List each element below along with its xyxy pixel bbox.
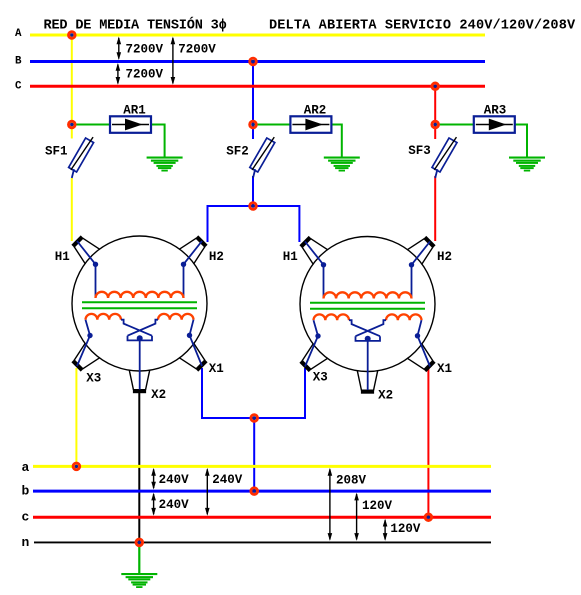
wire X3 lead of T2 [305, 320, 318, 366]
junction dot X3 lead T2 [315, 333, 320, 338]
secondary winding left of T1 [86, 314, 121, 320]
wire X3 lead of T1 [77, 320, 90, 366]
svg-text:b: b [22, 484, 30, 499]
bushing X2 of T2 [357, 370, 378, 391]
junction dot H1 lead T2 [321, 262, 326, 267]
wire phase C tap down to SF3 [434, 86, 436, 139]
fuse cutout SF1 [68, 134, 96, 173]
bushing X1 of T1 [179, 343, 209, 373]
primary winding of T2 [324, 292, 412, 298]
node H link junction [250, 203, 257, 210]
ground of AR1 [147, 157, 183, 172]
node c junction [425, 514, 432, 521]
junction dot H1 lead T1 [93, 262, 98, 267]
svg-text:7200V: 7200V [126, 43, 164, 57]
wire X1 lead of T1 [190, 320, 203, 366]
svg-text:H2: H2 [437, 250, 452, 264]
svg-text:7200V: 7200V [178, 43, 216, 57]
svg-text:X1: X1 [437, 362, 452, 376]
wire H2 of T1 to H1 of T2 link [208, 206, 300, 242]
svg-text:240V: 240V [212, 473, 243, 487]
svg-text:C: C [15, 81, 22, 93]
arrester AR3 wire to ground [515, 125, 527, 157]
node n junction [136, 539, 143, 546]
svg-text:208V: 208V [336, 474, 367, 488]
bushing H2 of T1 [179, 234, 209, 264]
bushing X2 of T1 [129, 370, 150, 391]
svg-text:SF3: SF3 [408, 144, 431, 158]
node b junction [251, 488, 258, 495]
arrester AR2 wire from tap [253, 124, 290, 126]
svg-text:n: n [22, 535, 30, 550]
junction dot H2 lead T2 [409, 262, 414, 267]
wire SF3 to H2 bushing of T2 [434, 176, 436, 241]
svg-text:SF1: SF1 [45, 145, 68, 159]
transformer T2 tank circle [300, 237, 435, 372]
bushing X1 of T2 [407, 344, 437, 374]
wire H1 lead of T1 [77, 241, 96, 298]
arrester AR1 body [110, 116, 151, 133]
wire SF1 to H1 bushing of T1 [71, 178, 73, 241]
bushing H1 of T2 [298, 235, 328, 265]
wire neutral to ground [138, 542, 140, 573]
dimension arrow A-B [117, 37, 122, 61]
svg-text:240V: 240V [159, 473, 190, 487]
dimension arrow a-n [328, 468, 333, 541]
ground of neutral [121, 573, 157, 588]
dimension arrow b-n [354, 493, 359, 541]
wire X1 of T1 to X3 of T2 link [202, 368, 305, 418]
wire phase A tap down to SF1 [71, 35, 73, 139]
bus neutral n [34, 541, 491, 543]
svg-text:AR2: AR2 [304, 104, 327, 118]
secondary winding right of T2 [386, 314, 421, 320]
svg-text:RED DE MEDIA TENSIÓN 3ϕ: RED DE MEDIA TENSIÓN 3ϕ [44, 18, 227, 34]
junction dot X1 lead T1 [187, 333, 192, 338]
wire H1 lead of T2 [305, 242, 324, 299]
ground of AR3 [509, 157, 545, 172]
center-tap crossover of T1 [121, 320, 158, 341]
transformer T1 tank circle [72, 236, 207, 371]
svg-text:X2: X2 [151, 388, 166, 402]
svg-text:7200V: 7200V [126, 67, 164, 81]
node C tap [432, 83, 439, 90]
node AR2 tap [250, 121, 257, 128]
svg-text:AR1: AR1 [123, 104, 146, 118]
svg-text:X2: X2 [378, 388, 393, 402]
arrester AR3 body [474, 116, 515, 133]
svg-text:B: B [15, 55, 22, 67]
wire H2 lead of T2 [412, 242, 431, 299]
node AR1 tap [69, 121, 76, 128]
svg-text:H1: H1 [55, 250, 70, 264]
arrester AR1 wire to ground [151, 125, 165, 157]
bushing X3 of T2 [298, 344, 328, 374]
svg-text:120V: 120V [362, 499, 393, 513]
arrester AR2 body [290, 116, 331, 133]
svg-text:H2: H2 [209, 250, 224, 264]
svg-text:c: c [22, 510, 30, 525]
arrester AR2 wire to ground [331, 125, 341, 157]
wire X1 lead of T2 [418, 320, 431, 366]
bushing H1 of T1 [70, 234, 100, 264]
secondary winding left of T2 [314, 314, 349, 320]
node B tap [250, 58, 257, 65]
fuse cutout SF2 [249, 134, 277, 173]
junction dot X1 lead T2 [415, 333, 420, 338]
node AR3 tap [432, 121, 439, 128]
ground of AR2 [324, 157, 360, 172]
bushing H2 of T2 [407, 235, 437, 265]
svg-text:A: A [15, 28, 22, 40]
dimension arrow c-n [383, 519, 388, 541]
bus phase A [30, 34, 485, 37]
svg-text:X3: X3 [86, 371, 101, 385]
wire X1 of T2 down to bus c [427, 368, 429, 517]
bus phase B [30, 60, 485, 63]
svg-text:240V: 240V [159, 498, 190, 512]
fuse SF1 lower stub [72, 169, 74, 178]
dimension arrow A-C [171, 37, 176, 85]
arrester AR1 wire from tap [72, 124, 110, 126]
svg-text:DELTA ABIERTA SERVICIO 240V/12: DELTA ABIERTA SERVICIO 240V/120V/208V [269, 19, 576, 34]
dimension arrow a-b [151, 468, 156, 490]
wire X2 of T1 down to bus n [138, 390, 140, 543]
wire center tap to X2 of T1 [139, 340, 141, 389]
center-tap crossover of T2 [349, 320, 386, 341]
junction dot X3 lead T1 [87, 333, 92, 338]
node A tap [69, 32, 76, 39]
wire phase B tap down to SF2 [252, 62, 254, 140]
primary winding of T1 [96, 292, 184, 298]
core lines of T1 [82, 302, 197, 308]
svg-text:X3: X3 [313, 370, 328, 384]
node X link junction [251, 415, 258, 422]
core lines of T2 [310, 303, 425, 309]
wire X3 of T1 down to bus a [75, 368, 77, 466]
wire H2 lead of T1 [184, 241, 203, 298]
wire SF2 to mid junction [252, 176, 254, 206]
junction dot H2 lead T1 [181, 262, 186, 267]
svg-text:X1: X1 [209, 362, 224, 376]
bus phase c secondary [33, 516, 491, 519]
fuse SF2 lower stub [253, 169, 255, 178]
node a junction [73, 463, 80, 470]
dimension arrow B-C [116, 63, 121, 85]
dimension arrow a-c [205, 468, 210, 516]
bus phase a secondary [33, 465, 491, 468]
wire link junction down to bus b [253, 418, 255, 491]
bushing X3 of T1 [70, 343, 100, 373]
svg-text:a: a [22, 460, 30, 475]
svg-text:AR3: AR3 [484, 104, 507, 118]
arrester AR3 wire from tap [435, 124, 474, 126]
center-tap junction dot T1 [137, 335, 143, 341]
secondary winding right of T1 [158, 314, 193, 320]
center-tap junction dot T2 [365, 336, 371, 342]
bus phase C [30, 85, 485, 88]
bus phase b secondary [33, 490, 491, 493]
dimension arrow b-c [151, 493, 156, 516]
svg-text:H1: H1 [283, 250, 298, 264]
fuse SF3 lower stub [435, 169, 437, 178]
svg-text:SF2: SF2 [226, 145, 249, 159]
svg-text:120V: 120V [390, 522, 421, 536]
fuse cutout SF3 [432, 134, 460, 173]
wire center tap to X2 of T2 [367, 341, 369, 390]
